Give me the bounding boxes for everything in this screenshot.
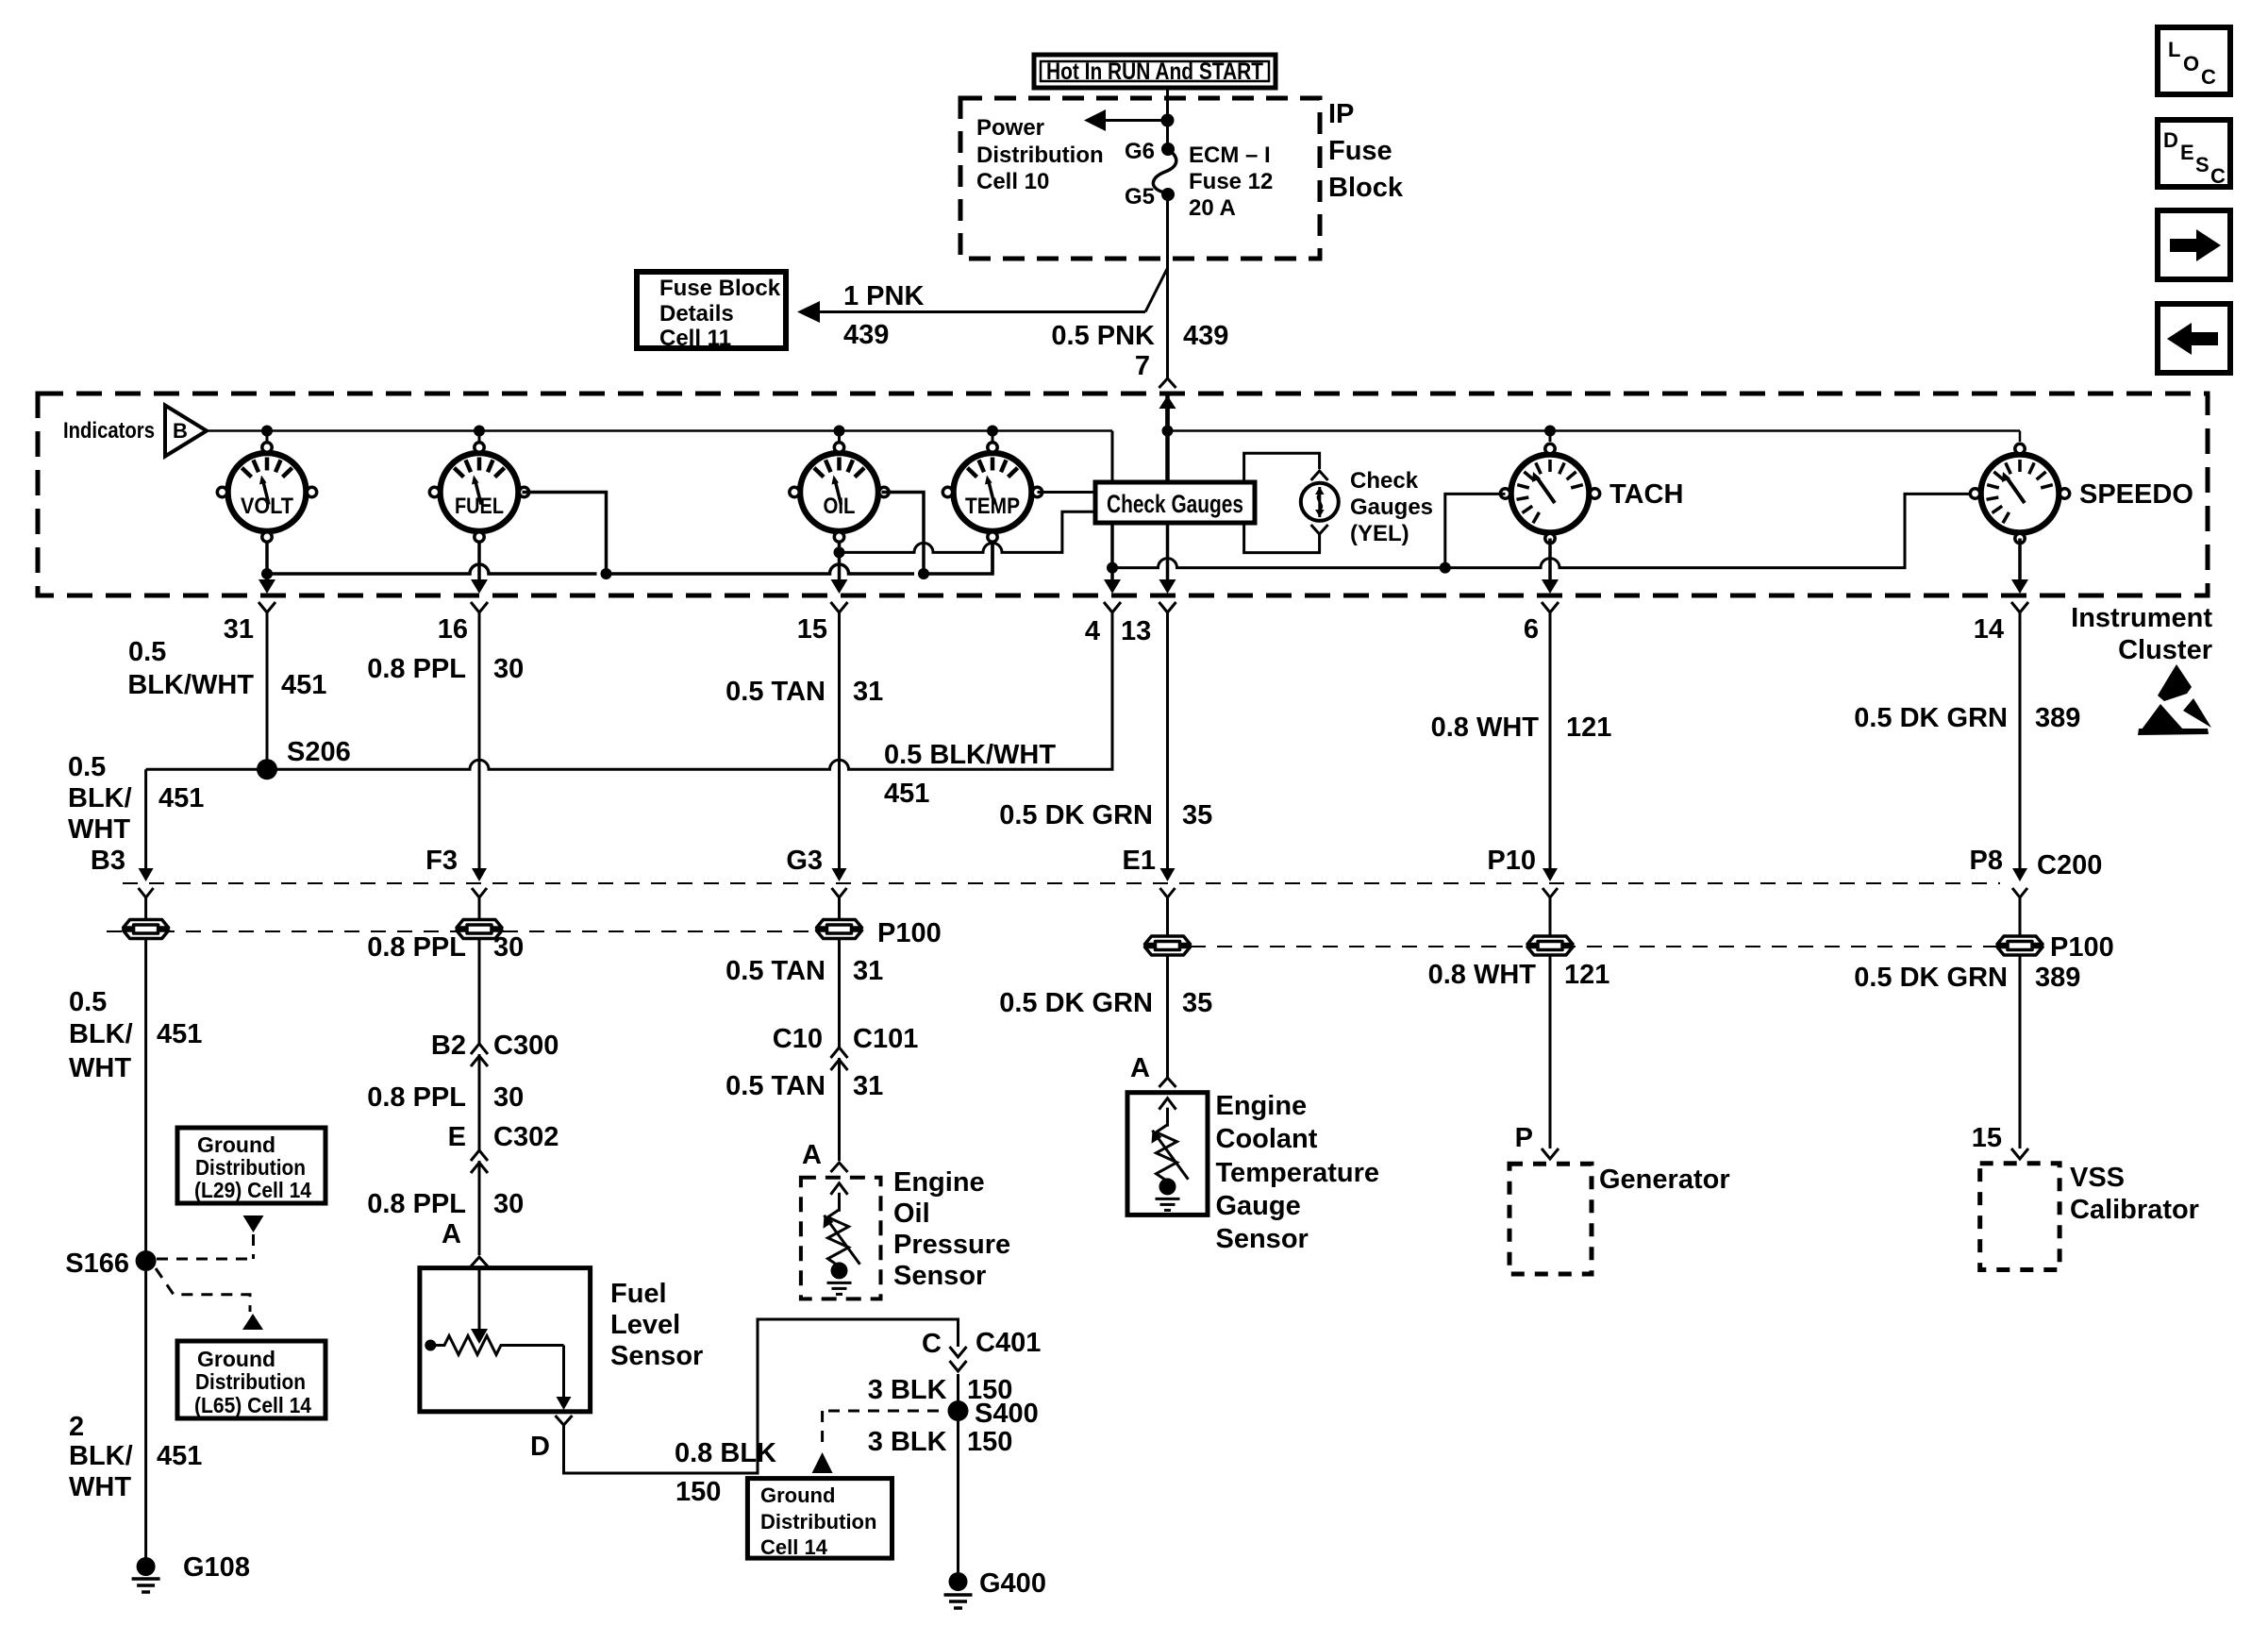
wire ign feed in cluster <box>1165 408 1170 482</box>
svg-text:C: C <box>922 1329 942 1359</box>
svg-text:Hot In RUN And START: Hot In RUN And START <box>1046 59 1263 85</box>
wire G3 to P100 <box>838 897 841 919</box>
svg-text:0.5 DK GRN: 0.5 DK GRN <box>999 988 1153 1018</box>
svg-text:0.5: 0.5 <box>68 752 106 782</box>
connector C200 dashed line <box>123 882 2000 884</box>
svg-text:15: 15 <box>797 614 827 645</box>
generator dashed box <box>1509 1164 1592 1274</box>
wire 30 to fuel sensor <box>478 1175 481 1255</box>
wire 35 from pin13 <box>1166 613 1169 878</box>
svg-text:0.5 DK GRN: 0.5 DK GRN <box>1854 703 2008 733</box>
svg-text:Fuse Block: Fuse Block <box>659 276 781 301</box>
svg-text:P8: P8 <box>1970 846 2003 876</box>
wire Check Gauges out pin13 <box>1166 523 1170 590</box>
wire OIL right branch <box>882 493 925 575</box>
svg-text:IP: IP <box>1328 99 1354 129</box>
svg-text:Ground: Ground <box>760 1484 835 1507</box>
svg-text:31: 31 <box>853 956 883 986</box>
svg-text:S166: S166 <box>65 1249 129 1279</box>
svg-text:A: A <box>442 1219 461 1249</box>
junction dot pin4 <box>1107 562 1118 574</box>
junction dot bus TEMP <box>987 426 998 437</box>
wire B3 down <box>144 769 147 877</box>
wire Check Gauges out pin4 <box>1110 523 1114 590</box>
svg-text:0.5 BLK/WHT: 0.5 BLK/WHT <box>884 740 1056 770</box>
svg-text:35: 35 <box>1182 800 1212 830</box>
svg-text:E1: E1 <box>1123 846 1156 876</box>
svg-text:Fuel: Fuel <box>610 1279 667 1309</box>
svg-text:B2: B2 <box>431 1031 466 1061</box>
gauge FUEL <box>429 443 528 542</box>
connector E1 at C200 <box>1160 868 1176 881</box>
svg-text:BLK/WHT: BLK/WHT <box>127 670 254 700</box>
svg-text:C: C <box>2201 65 2216 89</box>
ground distribution cell 14 box <box>747 1479 892 1559</box>
svg-text:0.8 WHT: 0.8 WHT <box>1431 712 1540 743</box>
wire 389 from SPEEDO <box>2019 613 2022 878</box>
svg-text:451: 451 <box>158 783 204 813</box>
svg-text:389: 389 <box>2035 703 2080 733</box>
ground distribution L65 box <box>177 1341 325 1418</box>
junction dot VOLT output <box>261 568 273 579</box>
wire bus to TACH and SPEEDO <box>1168 429 2021 432</box>
svg-text:439: 439 <box>843 320 889 350</box>
svg-text:G108: G108 <box>183 1552 250 1583</box>
wire 31 from OIL <box>838 613 841 878</box>
svg-text:Cluster: Cluster <box>2118 635 2212 665</box>
svg-text:Distribution: Distribution <box>195 1155 306 1180</box>
fuse ECM-I Fuse 12 20A <box>1153 149 1176 194</box>
connector fuel sensor pin D <box>556 1416 573 1425</box>
junction dot on feed wire <box>1161 114 1175 127</box>
connector into instrument cluster (pin 7) <box>1159 378 1176 388</box>
svg-text:0.8 PPL: 0.8 PPL <box>367 932 466 963</box>
connector P10 at C200 <box>1543 868 1558 881</box>
junction dot ign feed <box>1162 426 1174 437</box>
svg-text:VOLT: VOLT <box>241 494 293 519</box>
svg-text:0.5 TAN: 0.5 TAN <box>725 956 825 986</box>
svg-text:16: 16 <box>438 614 468 645</box>
wire 0.8 BLK 150 <box>564 1319 959 1473</box>
wire VOLT output <box>265 542 269 590</box>
svg-text:Distribution: Distribution <box>760 1510 876 1534</box>
svg-text:P10: P10 <box>1487 846 1536 876</box>
svg-text:C: C <box>2210 164 2226 188</box>
svg-text:Ground: Ground <box>197 1347 275 1371</box>
wire 3 BLK 150 <box>957 1374 959 1401</box>
engine oil pressure sensor box <box>801 1178 881 1299</box>
gauge VOLT <box>217 443 316 542</box>
svg-text:BLK/: BLK/ <box>69 1441 133 1471</box>
svg-text:G6: G6 <box>1125 139 1155 164</box>
cluster exit connector TACH <box>1542 579 1559 594</box>
instrument cluster dashed box <box>38 394 2208 595</box>
svg-text:0.8 PPL: 0.8 PPL <box>367 654 466 684</box>
svg-text:0.5: 0.5 <box>128 637 166 667</box>
junction dot OIL output <box>834 546 845 558</box>
svg-text:0.5 DK GRN: 0.5 DK GRN <box>1854 963 2008 993</box>
svg-text:451: 451 <box>157 1441 202 1471</box>
svg-text:S: S <box>2195 153 2210 176</box>
connector C302 <box>471 1150 488 1161</box>
svg-text:G3: G3 <box>786 846 823 876</box>
wire 121 from TACH <box>1549 613 1552 878</box>
fuel sensor output wire <box>562 1346 565 1400</box>
dashed lead to L29 <box>243 1215 264 1232</box>
svg-text:31: 31 <box>853 677 883 707</box>
svg-text:WHT: WHT <box>69 1053 131 1083</box>
engine coolant temperature gauge sensor box <box>1127 1093 1208 1215</box>
svg-text:VSS: VSS <box>2070 1163 2125 1193</box>
connector fuel sensor pin A <box>471 1257 488 1266</box>
svg-text:WHT: WHT <box>69 1472 131 1502</box>
svg-text:O: O <box>2183 52 2199 75</box>
cluster exit connector OIL <box>831 579 848 594</box>
grommet P100 P8 <box>1997 936 2043 955</box>
svg-text:121: 121 <box>1566 712 1611 743</box>
terminal G6 <box>1161 142 1175 156</box>
fuel level sensor box <box>420 1268 591 1412</box>
nav button DESC <box>2158 120 2230 187</box>
svg-text:Cell 10: Cell 10 <box>976 169 1049 194</box>
svg-text:Check: Check <box>1350 468 1419 494</box>
nav button next-arrow <box>2158 210 2230 279</box>
svg-text:B3: B3 <box>91 846 125 876</box>
splice S166 <box>136 1250 157 1271</box>
svg-text:13: 13 <box>1121 616 1151 646</box>
svg-text:C10: C10 <box>773 1024 823 1054</box>
wire P8 to P100 <box>2019 897 2022 936</box>
wire SPEEDO output <box>2018 539 2022 591</box>
svg-text:3 BLK: 3 BLK <box>868 1375 947 1405</box>
svg-text:S400: S400 <box>975 1399 1039 1429</box>
junction dot OIL right branch <box>918 568 929 579</box>
svg-text:BLK/: BLK/ <box>69 1019 133 1049</box>
svg-text:Engine: Engine <box>893 1167 985 1198</box>
IP fuse block dashed box <box>960 98 1320 259</box>
gauge TEMP <box>942 443 1042 542</box>
svg-text:0.5 DK GRN: 0.5 DK GRN <box>999 800 1153 830</box>
cluster exit connector pin13 <box>1159 579 1176 594</box>
svg-text:P100: P100 <box>877 918 942 948</box>
svg-text:Power: Power <box>976 115 1044 141</box>
svg-text:Engine: Engine <box>1216 1091 1308 1121</box>
svg-text:35: 35 <box>1182 988 1212 1018</box>
svg-text:3 BLK: 3 BLK <box>868 1427 947 1457</box>
svg-text:0.5: 0.5 <box>69 987 107 1017</box>
svg-text:Level: Level <box>610 1310 680 1340</box>
svg-text:TACH: TACH <box>1609 479 1683 510</box>
wire S206 to B3 <box>146 768 267 771</box>
svg-text:Gauge: Gauge <box>1216 1191 1301 1221</box>
connector C300 <box>471 1044 488 1054</box>
connector B3 at C200 <box>139 868 154 881</box>
wire 30 below P100 <box>478 939 481 1044</box>
nav button back-arrow <box>2158 304 2230 373</box>
svg-text:SPEEDO: SPEEDO <box>2079 479 2193 510</box>
svg-text:14: 14 <box>1974 614 2004 645</box>
label box Fuse Block Details Cell 11 <box>637 272 786 348</box>
cluster exit connector VOLT <box>258 579 275 594</box>
ground G400 <box>949 1572 968 1591</box>
svg-text:C300: C300 <box>493 1031 559 1061</box>
svg-text:ECM – I: ECM – I <box>1189 142 1271 168</box>
svg-text:C101: C101 <box>853 1024 918 1054</box>
ground distribution L29 box <box>177 1128 325 1203</box>
wire fuse output <box>1166 194 1169 380</box>
svg-text:(L65) Cell 14: (L65) Cell 14 <box>194 1393 311 1417</box>
svg-text:Check Gauges: Check Gauges <box>1107 490 1243 518</box>
label box Hot In RUN And START <box>1034 55 1276 88</box>
svg-text:E: E <box>448 1122 466 1152</box>
svg-text:121: 121 <box>1564 960 1609 990</box>
svg-text:Calibrator: Calibrator <box>2070 1195 2199 1225</box>
wire FUEL output <box>477 542 481 590</box>
svg-text:P100: P100 <box>2050 932 2114 963</box>
connector generator pin P <box>1542 1148 1559 1159</box>
connector EOP pin A <box>831 1163 848 1172</box>
gauge OIL <box>790 443 889 542</box>
svg-text:B: B <box>173 419 188 443</box>
junction dot FUEL right branch <box>601 568 612 579</box>
cluster exit connector SPEEDO <box>2011 579 2028 594</box>
svg-text:Oil: Oil <box>893 1199 930 1229</box>
junction dot TACH branch <box>1440 562 1451 574</box>
splice S206 <box>257 759 277 779</box>
svg-text:FUEL: FUEL <box>455 494 504 519</box>
wire B3 to P100 <box>144 897 147 919</box>
svg-text:0.5 TAN: 0.5 TAN <box>725 677 825 707</box>
connector VSS pin 15 <box>2011 1148 2028 1159</box>
svg-text:S206: S206 <box>287 737 351 767</box>
svg-text:20 A: 20 A <box>1189 195 1236 221</box>
svg-text:C302: C302 <box>493 1122 559 1152</box>
arrow to Power Distribution <box>1099 119 1168 122</box>
splice S400 <box>948 1400 969 1421</box>
wire TACH output <box>1548 539 1552 591</box>
svg-text:30: 30 <box>493 1082 524 1113</box>
wire FUEL right branch <box>523 493 607 575</box>
svg-text:A: A <box>802 1140 822 1170</box>
svg-text:30: 30 <box>493 1189 524 1219</box>
fuel sensor wiper arrow <box>478 1268 481 1329</box>
svg-text:L: L <box>2168 38 2180 61</box>
svg-text:Cell 14: Cell 14 <box>760 1535 828 1559</box>
svg-text:31: 31 <box>224 614 254 645</box>
svg-text:Sensor: Sensor <box>893 1261 986 1291</box>
ESD warning symbol <box>2158 664 2192 701</box>
svg-text:Indicators: Indicators <box>63 418 155 444</box>
connector ECT pin A <box>1159 1078 1176 1087</box>
svg-text:TEMP: TEMP <box>965 494 1020 519</box>
svg-text:Gauges: Gauges <box>1350 495 1433 520</box>
svg-text:Ground: Ground <box>197 1132 275 1157</box>
wire 1 PNK 439 branch <box>817 310 1145 313</box>
svg-text:C401: C401 <box>976 1328 1041 1358</box>
svg-text:4: 4 <box>1085 616 1100 646</box>
wire 389 below P100 <box>2019 955 2022 1148</box>
svg-text:E: E <box>2180 141 2194 164</box>
gauge SPEEDO <box>1970 444 2069 543</box>
svg-text:G400: G400 <box>979 1568 1046 1599</box>
wire from Hot In RUN to fuse <box>1166 90 1169 146</box>
junction dot bus VOLT <box>261 426 273 437</box>
ground G108 <box>137 1557 156 1576</box>
svg-text:G5: G5 <box>1125 184 1155 210</box>
wire 451 to S166 <box>144 939 147 1251</box>
VSS calibrator dashed box <box>1980 1164 2060 1270</box>
svg-text:Pressure: Pressure <box>893 1230 1010 1260</box>
connector G3 at C200 <box>832 868 847 881</box>
svg-text:7: 7 <box>1135 351 1150 381</box>
dashed lead to ground distribution cell 14 <box>828 1410 947 1413</box>
wire gauge ground bus <box>267 564 597 574</box>
svg-text:D: D <box>2163 128 2178 152</box>
svg-text:Block: Block <box>1328 173 1404 203</box>
svg-text:0.8 BLK: 0.8 BLK <box>675 1438 776 1468</box>
connector lamp top <box>1311 471 1328 480</box>
grommet P100 G3 <box>817 920 862 939</box>
svg-text:OIL: OIL <box>824 494 856 519</box>
svg-text:F3: F3 <box>425 846 458 876</box>
check gauges indicator lamp (YEL) <box>1301 483 1339 521</box>
wire E1 to P100 <box>1166 897 1169 936</box>
wire S400 to G400 <box>957 1411 959 1572</box>
fuel sensor resistor <box>425 1340 436 1351</box>
wire S206 to pin4 branch <box>267 613 1112 770</box>
svg-text:150: 150 <box>675 1477 721 1507</box>
svg-text:0.5 TAN: 0.5 TAN <box>725 1071 825 1101</box>
svg-text:Generator: Generator <box>1599 1165 1730 1195</box>
svg-text:BLK/: BLK/ <box>68 783 132 813</box>
svg-text:150: 150 <box>967 1427 1012 1457</box>
svg-text:P: P <box>1515 1123 1533 1153</box>
arrowhead to Fuse Block Details <box>797 301 820 323</box>
wire check gauges lamp loop top <box>1244 453 1320 482</box>
Check Gauges box <box>1095 482 1255 523</box>
connector C401 <box>950 1347 967 1357</box>
svg-text:Fuse: Fuse <box>1328 136 1392 166</box>
wire 30 to C302 <box>478 1068 481 1150</box>
junction dot bus FUEL <box>474 426 485 437</box>
wire TACH left branch <box>1445 494 1506 567</box>
svg-text:A: A <box>1130 1053 1150 1083</box>
svg-text:Distribution: Distribution <box>195 1369 306 1394</box>
connector P100 dashed line left <box>107 930 863 932</box>
svg-text:Cell 11: Cell 11 <box>659 326 731 351</box>
wire 31 to EOP sensor <box>838 1072 841 1161</box>
wire 451 from VOLT <box>266 613 269 770</box>
svg-text:(L29) Cell 14: (L29) Cell 14 <box>194 1178 311 1202</box>
svg-text:6: 6 <box>1524 614 1539 645</box>
wire 121 below P100 <box>1549 955 1552 1148</box>
indicator triangle B <box>165 406 207 457</box>
svg-text:Details: Details <box>659 301 734 327</box>
svg-text:389: 389 <box>2035 963 2080 993</box>
svg-text:451: 451 <box>281 670 326 700</box>
svg-text:439: 439 <box>1183 321 1228 351</box>
svg-text:Distribution: Distribution <box>976 142 1104 168</box>
svg-text:Sensor: Sensor <box>1216 1224 1309 1254</box>
svg-text:30: 30 <box>493 654 524 684</box>
junction dot bus OIL <box>834 426 845 437</box>
connector lamp bottom <box>1311 525 1328 534</box>
svg-text:0.8 PPL: 0.8 PPL <box>367 1082 466 1113</box>
junction dot bus TACH <box>1544 426 1556 437</box>
svg-text:Coolant: Coolant <box>1216 1124 1318 1154</box>
wire TEMP to Check Gauges <box>1038 491 1096 494</box>
wire TEMP output <box>991 542 994 574</box>
svg-text:451: 451 <box>884 779 929 809</box>
wire 31 below P100 <box>838 939 841 1048</box>
svg-text:451: 451 <box>157 1019 202 1049</box>
dashed lead to L65 <box>156 1268 250 1312</box>
cluster exit connector FUEL <box>471 579 488 594</box>
grommet P100 E1 <box>1145 936 1191 955</box>
svg-text:0.8 WHT: 0.8 WHT <box>1428 960 1537 990</box>
wire F3 to P100 <box>478 897 481 919</box>
grommet P100 B3 <box>124 920 169 939</box>
wire OIL to Check Gauges <box>840 511 1096 552</box>
svg-text:Instrument: Instrument <box>2071 603 2212 633</box>
terminal G5 <box>1161 188 1175 201</box>
wire indicators bus <box>207 429 1112 432</box>
svg-text:D: D <box>530 1432 550 1462</box>
svg-text:Sensor: Sensor <box>610 1341 703 1371</box>
connector P100 dashed line right <box>1191 946 2043 947</box>
cluster exit connector pin4 <box>1104 579 1121 594</box>
grommet P100 P10 <box>1527 936 1573 955</box>
svg-text:1 PNK: 1 PNK <box>843 281 924 311</box>
svg-text:30: 30 <box>493 932 524 963</box>
svg-text:C200: C200 <box>2037 850 2102 880</box>
svg-text:0.5 PNK: 0.5 PNK <box>1051 321 1155 351</box>
nav button LOC <box>2158 27 2230 94</box>
svg-text:Fuse 12: Fuse 12 <box>1189 169 1273 194</box>
svg-text:15: 15 <box>1972 1123 2002 1153</box>
wire P10 to P100 <box>1549 897 1552 936</box>
svg-text:0.8 PPL: 0.8 PPL <box>367 1189 466 1219</box>
connector P8 at C200 <box>2012 868 2027 881</box>
connector C101 <box>831 1048 848 1058</box>
wire 35 below P100 <box>1166 955 1169 1078</box>
wire check gauges lamp loop bottom <box>1244 523 1320 553</box>
wire 30 from FUEL <box>478 613 481 878</box>
svg-text:WHT: WHT <box>68 814 130 845</box>
svg-text:(YEL): (YEL) <box>1350 521 1409 546</box>
gauge TACH <box>1500 444 1599 543</box>
wire S166 to G108 <box>144 1271 147 1558</box>
svg-text:Temperature: Temperature <box>1216 1158 1380 1188</box>
wire OIL output <box>838 542 842 590</box>
grommet P100 F3 <box>457 920 502 939</box>
svg-text:31: 31 <box>853 1071 883 1101</box>
svg-text:2: 2 <box>69 1412 84 1442</box>
connector F3 at C200 <box>472 868 487 881</box>
wire cluster low line to SPEEDO <box>1112 494 1970 567</box>
